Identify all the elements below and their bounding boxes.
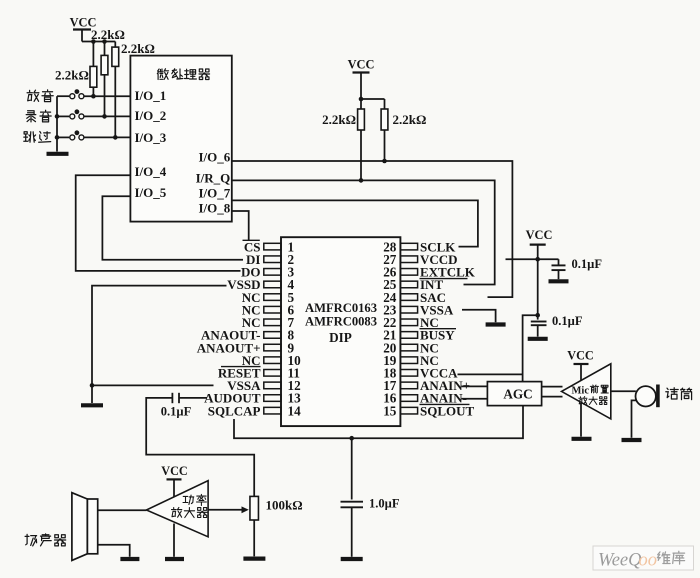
svg-text:oo: oo (639, 551, 658, 571)
wire R3 top (114, 42, 116, 48)
node R4/IRQ (359, 178, 364, 183)
svg-text:2.2kΩ: 2.2kΩ (322, 112, 356, 127)
svg-text:0.1µF: 0.1µF (552, 314, 583, 328)
ground amp (165, 557, 184, 561)
switch S2 record (57, 115, 69, 117)
node rail-R1 (91, 39, 96, 44)
pin stub U2-26 (400, 269, 417, 276)
node rail S3 (55, 135, 60, 140)
wire R2 bottom (104, 75, 106, 117)
wire VSSA right (462, 310, 496, 323)
label U3 前置 (590, 385, 598, 393)
wire VSSA left (92, 384, 214, 386)
AGC block (487, 382, 541, 406)
svg-text:SQLOUT: SQLOUT (420, 403, 475, 418)
capacitor C3 0.1uF (552, 264, 566, 266)
pin stub U2-13 (264, 395, 281, 402)
node R1/IO1 (91, 94, 96, 99)
microprocessor U1 box (130, 56, 231, 222)
IC U2 AMFRC0163 box (281, 237, 400, 426)
pin stub U2-28 (400, 243, 417, 250)
svg-text:0.1µF: 0.1µF (572, 257, 603, 271)
svg-text:I/O_4: I/O_4 (135, 164, 167, 179)
wire C4 gnd (537, 325, 539, 336)
resistor R2 2.2k (101, 55, 108, 74)
wire C1 left down (146, 398, 254, 497)
pin stub U2-23 (400, 306, 417, 313)
node mid split (359, 97, 364, 102)
wire to ground left (91, 385, 93, 403)
resistor R5 2.2k (381, 109, 388, 130)
ground switches (47, 152, 69, 156)
node rail S2 (55, 114, 60, 119)
svg-text:VCC: VCC (348, 58, 375, 72)
pin stub U2-20 (400, 344, 417, 351)
svg-text:I/O_2: I/O_2 (135, 108, 167, 123)
svg-text:0.1µF: 0.1µF (161, 404, 192, 418)
svg-text:VCC: VCC (161, 464, 187, 478)
node SQLCAP/C2 (349, 436, 354, 441)
wire R2 top (104, 42, 106, 56)
wire AGC to preamp b (542, 396, 563, 398)
wire VCC right down (537, 245, 539, 260)
svg-text:I/O_6: I/O_6 (199, 149, 231, 164)
pin stub U2-12 (264, 382, 281, 389)
pin stub U2-3 (264, 269, 281, 276)
pin stub U2-4 (264, 281, 281, 288)
pin stub U2-10 (264, 357, 281, 364)
node VCC/C4 (535, 313, 540, 318)
wire IO5-DI (102, 196, 243, 260)
wire C2 top (351, 438, 353, 499)
wire VCC to pull-up rail (81, 30, 83, 42)
svg-text:100kΩ: 100kΩ (266, 498, 303, 513)
pin stub U2-27 (400, 256, 417, 263)
svg-text:AGC: AGC (503, 386, 532, 401)
wire VCCA (458, 373, 523, 375)
wire IO8-CS (232, 211, 249, 240)
capacitor C2 1.0uF (341, 501, 364, 503)
pin stub U2-15 (400, 407, 417, 414)
pin stub U2-8 (264, 332, 281, 339)
svg-text:AMFRC0083: AMFRC0083 (305, 315, 377, 329)
wire mic gnd (632, 400, 637, 437)
node VCC/VCCD (535, 257, 540, 262)
svg-text:DIP: DIP (329, 330, 352, 345)
overline SQLOUT (420, 403, 470, 405)
label 扬声器 (25, 534, 36, 546)
overline CS (243, 239, 260, 241)
svg-text:I/O_8: I/O_8 (199, 201, 231, 216)
svg-text:AMFRC0163: AMFRC0163 (305, 301, 377, 315)
svg-text:2.2kΩ: 2.2kΩ (393, 112, 427, 127)
watermark box (593, 546, 694, 570)
wire IO6-SAC (232, 161, 513, 297)
pin stub U2-9 (264, 344, 281, 351)
wire R1 top (92, 42, 94, 67)
svg-text:I/O_5: I/O_5 (135, 185, 167, 200)
label U4 功率 (183, 495, 194, 504)
wire VCC amp (173, 479, 175, 497)
wire amp input from pot (208, 509, 246, 511)
wire preamp gnd (580, 403, 582, 437)
wire ANAIN- to AGC (462, 398, 488, 400)
wire C2 bottom (351, 507, 353, 557)
node R2/IO2 (102, 114, 107, 119)
wire IRQ-INT (232, 180, 495, 284)
overline RESET (221, 366, 261, 368)
svg-text:SQLCAP: SQLCAP (208, 403, 261, 418)
wire VCC to VCCA/AGC (523, 315, 538, 381)
pin stub U2-24 (400, 294, 417, 301)
wire VSSD left (92, 286, 227, 386)
wire amp out to speaker (98, 509, 147, 511)
wire to C3 (538, 258, 559, 260)
wire mid branch (361, 98, 385, 100)
pin stub U2-14 (264, 407, 281, 414)
capacitor C1 0.1uF (171, 393, 173, 403)
pin stub U2-22 (400, 319, 417, 326)
svg-text:VCC: VCC (567, 349, 593, 363)
switch S3 skip (57, 136, 69, 138)
op-amp U4 power amp (146, 481, 208, 537)
svg-text:1.0µF: 1.0µF (369, 497, 400, 511)
wire amp gnd (173, 524, 175, 557)
ground C2 (341, 557, 363, 561)
ground VSSA right (486, 322, 506, 326)
svg-text:I/R_Q: I/R_Q (196, 170, 231, 185)
wire R4 top (360, 99, 362, 109)
label U1 微处理器 (157, 69, 168, 80)
pin stub U2-21 (400, 332, 417, 339)
wire VCCD (506, 258, 538, 260)
capacitor C4 0.1uF (537, 315, 539, 319)
wire C3 gnd (558, 270, 560, 279)
wire IO4-DO (76, 175, 241, 271)
pin stub U2-19 (400, 357, 417, 364)
wire ANAIN+ to AGC (462, 385, 488, 387)
label skip 跳过 (24, 132, 36, 142)
svg-text:15: 15 (383, 403, 397, 418)
ground C4 (528, 337, 548, 341)
svg-text:WeeQ: WeeQ (598, 551, 642, 571)
label 话筒 (666, 388, 678, 399)
pin stub U2-2 (264, 256, 281, 263)
ground speaker (120, 557, 139, 561)
watermark 维库 (657, 552, 670, 564)
ground mic (622, 438, 642, 442)
ground C3 (549, 279, 569, 283)
wire pot bottom (253, 520, 255, 556)
node R3/IO3 (113, 135, 118, 140)
label U4 放大器 (172, 507, 182, 517)
wire VCC down to C4 (537, 259, 539, 315)
node rail-R2 (102, 39, 107, 44)
ground preamp (572, 437, 592, 441)
node R5/IO6 (382, 159, 387, 164)
potentiometer RP1 100k body (250, 496, 259, 520)
svg-text:I/O_3: I/O_3 (135, 130, 167, 145)
wire R5 to IO6 net (384, 130, 386, 161)
svg-text:VCC: VCC (526, 228, 553, 242)
wire R1 bottom (92, 87, 94, 96)
underline EXTCLK / overline INT (420, 278, 468, 280)
speaker LS1 扬声器 (87, 499, 97, 554)
pin stub U2-16 (400, 395, 417, 402)
pin stub U2-7 (264, 319, 281, 326)
wire IO7-SCLK (232, 200, 478, 246)
ground VSS (81, 403, 103, 407)
op-amp U3 mic preamp (562, 364, 611, 419)
svg-text:I/O_7: I/O_7 (199, 185, 231, 200)
wire VCC preamp (580, 364, 582, 381)
wire VCC mid down (360, 73, 362, 100)
svg-text:14: 14 (288, 403, 302, 418)
pin stub U2-5 (264, 294, 281, 301)
wire preamp to mic (611, 390, 636, 392)
resistor R3 2.2k (112, 47, 119, 66)
svg-text:I/O_1: I/O_1 (135, 88, 167, 103)
node VSSD/VSSA (90, 383, 95, 388)
resistor R4 2.2k (358, 109, 365, 130)
wire AGC to preamp a (542, 386, 563, 388)
svg-text:2.2kΩ: 2.2kΩ (91, 27, 125, 42)
switch S1 play (57, 95, 69, 97)
pin stub U2-18 (400, 370, 417, 377)
label play 放音 (27, 90, 39, 101)
pin stub U2-17 (400, 382, 417, 389)
wire speaker gnd (98, 545, 130, 557)
ground pot (243, 556, 265, 560)
pin stub U2-6 (264, 306, 281, 313)
overline BUSY (420, 328, 457, 330)
wire SQLCAP down (234, 406, 523, 438)
pin stub U2-1 (264, 243, 281, 250)
wire R4 to IRQ net (360, 130, 362, 180)
svg-text:2.2kΩ: 2.2kΩ (55, 68, 89, 83)
wire AUDOUT to C1 (179, 397, 207, 399)
microphone MK1 话筒 (636, 386, 656, 406)
resistor R1 2.2k (90, 66, 97, 87)
wire switch common rail (56, 96, 58, 151)
pin stub U2-11 (264, 370, 281, 377)
label record 录音 (26, 111, 36, 122)
svg-text:Mic: Mic (572, 386, 590, 397)
label U3 放大器 (579, 397, 587, 405)
wire R3 bottom (114, 66, 116, 137)
pin stub U2-25 (400, 281, 417, 288)
svg-text:2.2kΩ: 2.2kΩ (121, 41, 155, 56)
